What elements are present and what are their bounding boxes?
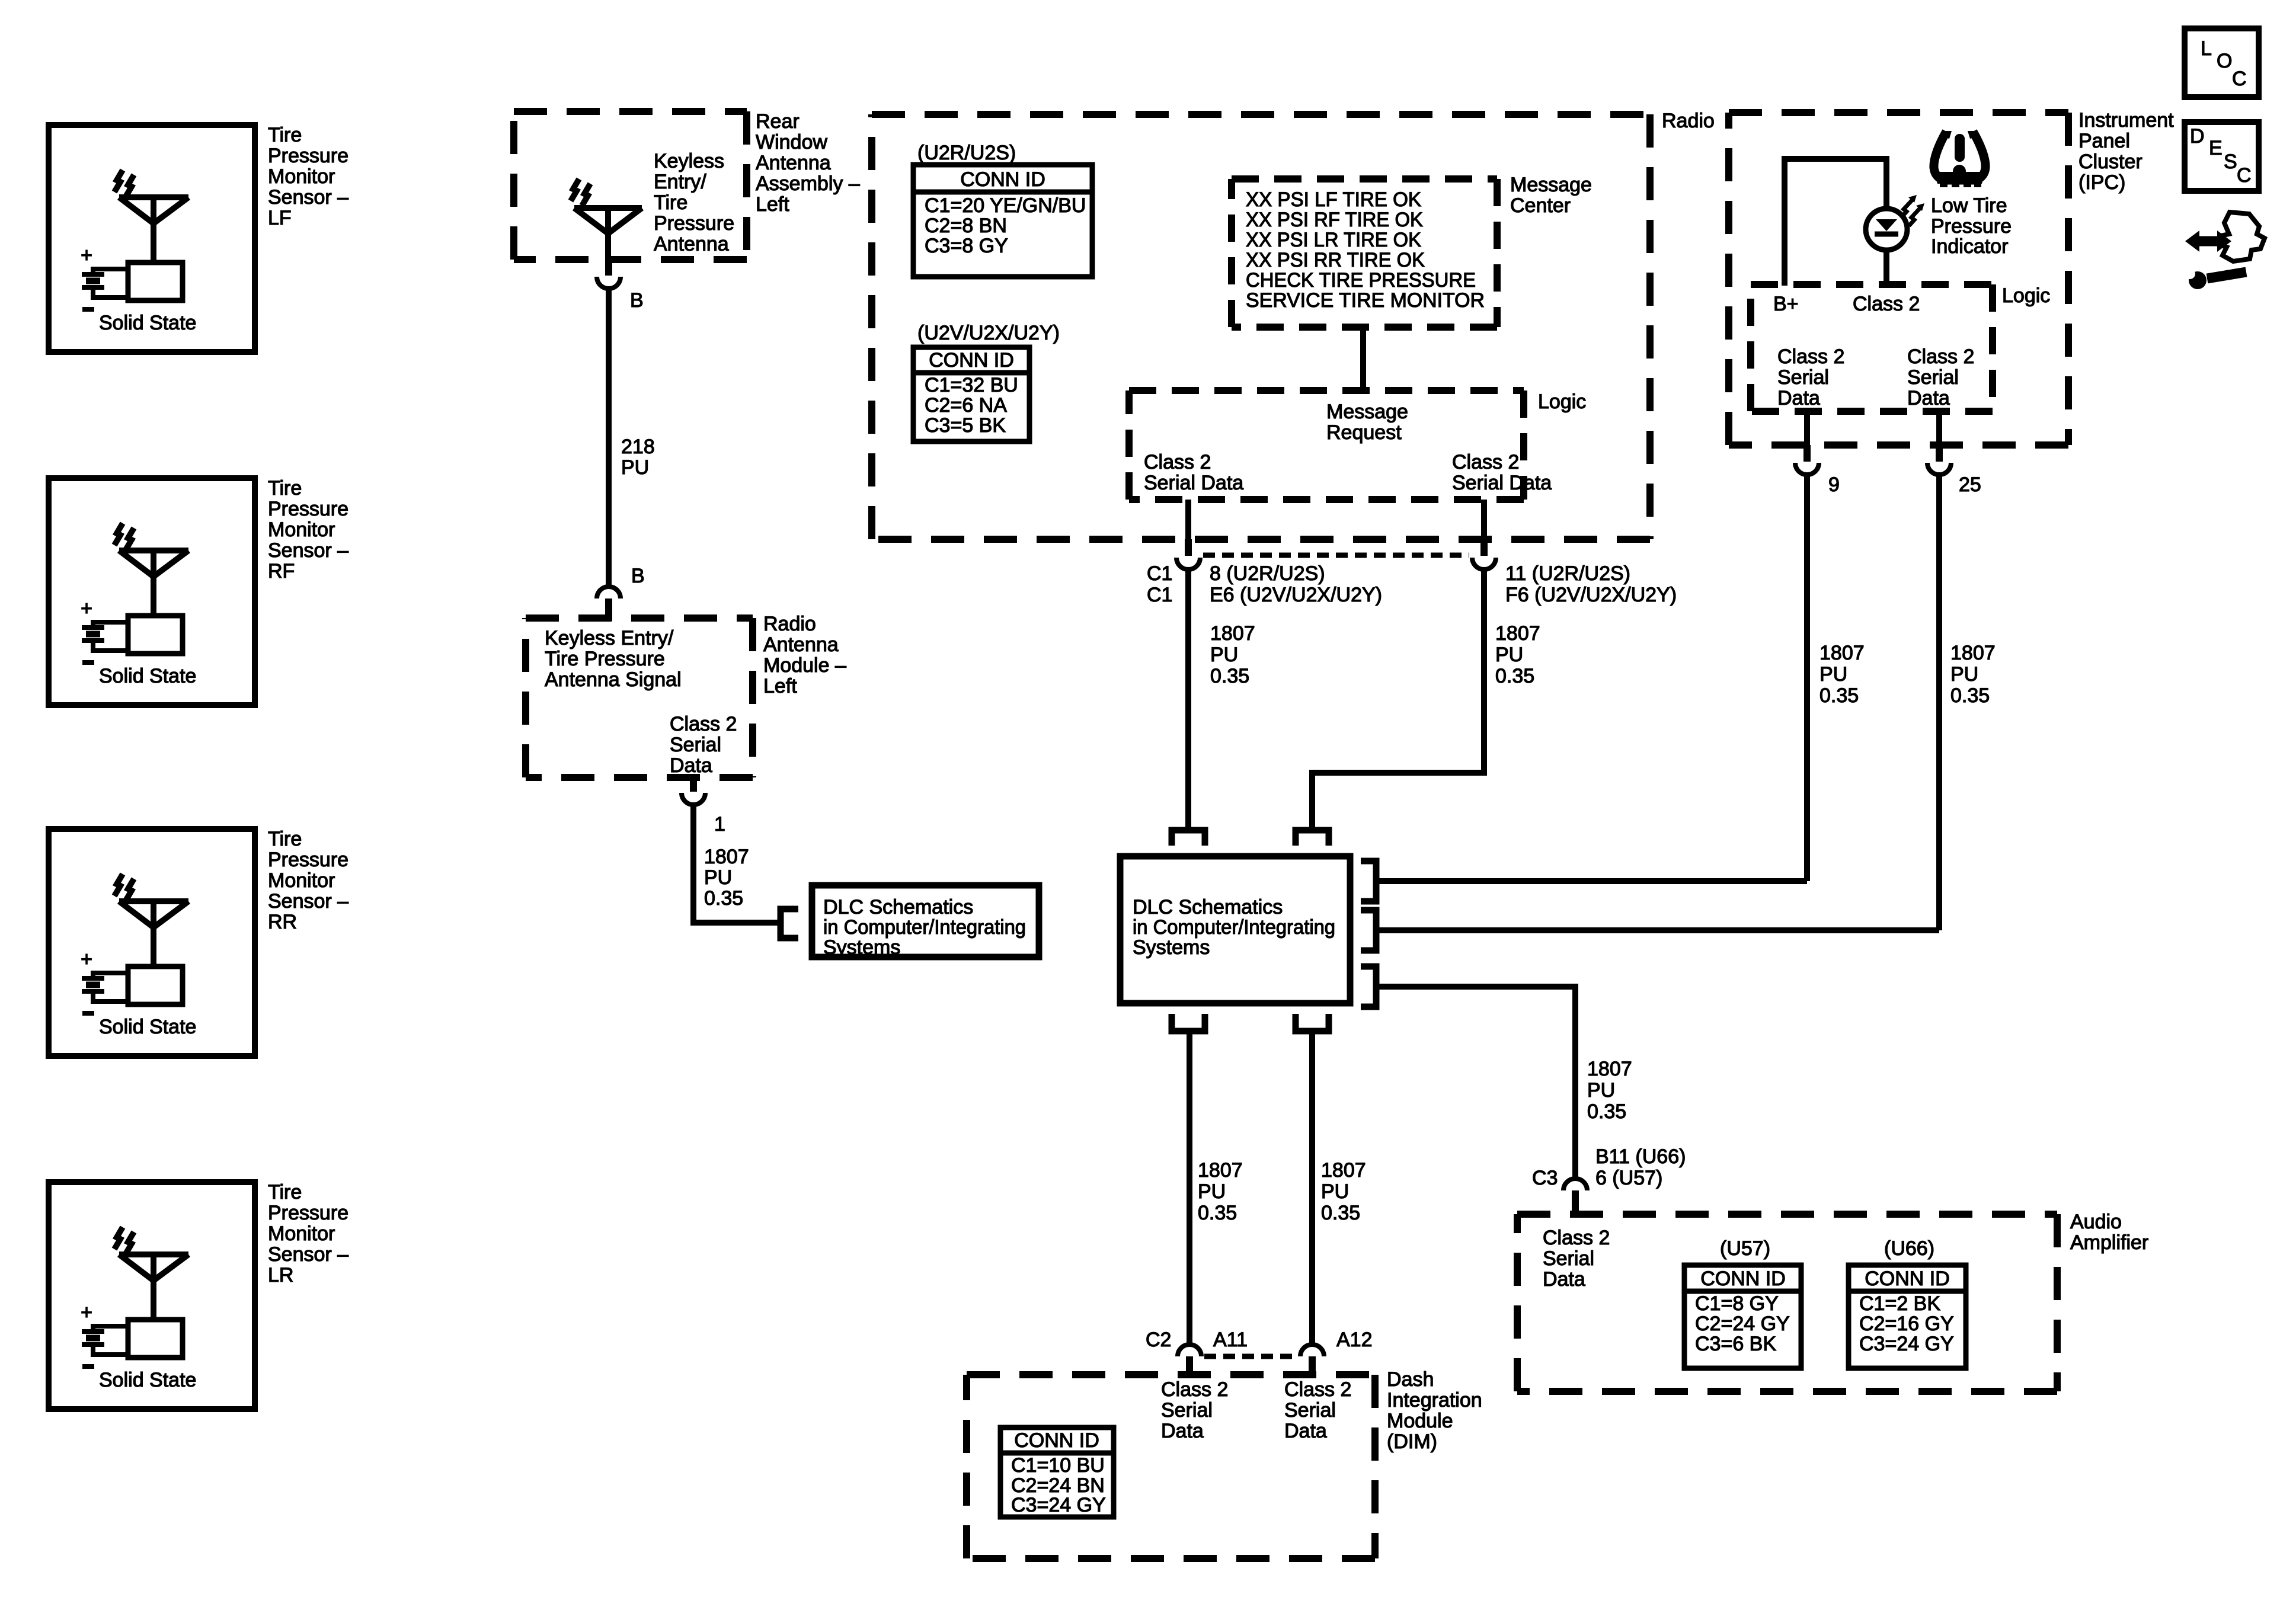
svg-text:1807: 1807	[1950, 642, 1996, 664]
svg-text:Monitor: Monitor	[268, 518, 335, 541]
radio dashed box	[872, 114, 1650, 539]
wire label 218 PU	[621, 436, 655, 479]
svg-text:Class 2: Class 2	[670, 713, 737, 735]
wire LED to logic Class 2 point	[1884, 250, 1889, 286]
svg-text:A12: A12	[1336, 1329, 1373, 1351]
svg-text:Pressure: Pressure	[1931, 215, 2012, 238]
svg-text:XX PSI LF TIRE OK: XX PSI LF TIRE OK	[1246, 188, 1421, 211]
svg-text:C1=2 BK: C1=2 BK	[1859, 1292, 1940, 1315]
svg-text:Pressure: Pressure	[268, 145, 348, 167]
svg-text:Pressure: Pressure	[268, 1202, 348, 1224]
tire pressure monitor sensor RR (box)	[49, 829, 255, 1056]
svg-text:Serial: Serial	[1907, 366, 1959, 389]
wire label 1807 PU 0.35	[704, 846, 749, 910]
label: Keyless Entry/ Tire Pressure Antenna Signal	[545, 627, 682, 691]
svg-text:XX PSI LR TIRE OK: XX PSI LR TIRE OK	[1246, 229, 1421, 251]
svg-text:Monitor: Monitor	[268, 1222, 335, 1245]
svg-text:Systems: Systems	[1133, 936, 1210, 959]
svg-text:Panel: Panel	[2078, 130, 2130, 152]
svg-text:RF: RF	[268, 560, 295, 582]
svg-text:(DIM): (DIM)	[1387, 1430, 1437, 1453]
svg-text:C2=16 GY: C2=16 GY	[1859, 1313, 1954, 1335]
node: Class 2 Serial Data (IPC left)	[1777, 345, 1844, 409]
svg-text:C1=8 GY: C1=8 GY	[1695, 1292, 1779, 1315]
node: Class 2 Serial Data (radio antenna module)	[670, 713, 737, 777]
svg-text:Pressure: Pressure	[654, 212, 734, 235]
dash integration module dashed box	[967, 1375, 1375, 1558]
svg-text:Sensor –: Sensor –	[268, 186, 348, 209]
node: Class 2 Serial Data (IPC right)	[1907, 345, 1974, 409]
svg-text:D: D	[2190, 125, 2205, 148]
svg-text:Keyless: Keyless	[654, 150, 724, 172]
svg-text:C3=24 GY: C3=24 GY	[1011, 1494, 1106, 1516]
svg-text:Request: Request	[1326, 421, 1402, 444]
svg-text:Rear: Rear	[756, 110, 800, 133]
svg-text:Message: Message	[1510, 174, 1592, 196]
wire 1807 PU 0.35 radio right drop	[1312, 569, 1484, 830]
svg-text:C1=20 YE/GN/BU: C1=20 YE/GN/BU	[925, 194, 1086, 217]
svg-text:E: E	[2209, 137, 2223, 159]
DLC schematics box (center)	[1120, 856, 1350, 1003]
pin bracket right 2 of DLC center	[1361, 910, 1376, 950]
IPC logic dashed box	[1751, 284, 1993, 411]
svg-text:Class 2: Class 2	[1853, 293, 1920, 315]
connector A11 at DIM top left	[1178, 1345, 1201, 1378]
label: Dash Integration Module (DIM)	[1387, 1368, 1482, 1453]
svg-text:C3=24 GY: C3=24 GY	[1859, 1333, 1954, 1355]
svg-text:Low Tire: Low Tire	[1931, 194, 2007, 217]
svg-text:(U2R/U2S): (U2R/U2S)	[917, 142, 1016, 164]
svg-text:Class 2: Class 2	[1144, 451, 1211, 473]
svg-text:Window: Window	[756, 131, 827, 153]
svg-text:C3: C3	[1532, 1167, 1558, 1189]
svg-text:Antenna: Antenna	[756, 152, 831, 174]
tire pressure monitor sensor LR (box)	[49, 1182, 255, 1409]
svg-text:0.35: 0.35	[1819, 684, 1859, 707]
wire label 1807 PU 0.35 (DIM left)	[1198, 1159, 1243, 1224]
wire label 1807 PU 0.35 (audio amp drop)	[1587, 1058, 1632, 1123]
label: Tire Pressure Monitor Sensor - RR	[268, 828, 348, 933]
svg-text:Left: Left	[763, 675, 797, 697]
DESC reference box	[2185, 122, 2259, 191]
svg-text:Class 2: Class 2	[1543, 1227, 1610, 1249]
svg-text:Antenna: Antenna	[654, 233, 729, 255]
svg-text:C1=32 BU: C1=32 BU	[925, 374, 1018, 396]
wire label 1807 PU 0.35 (IPC pin 9)	[1819, 642, 1865, 707]
wire pin 9 drop 1807 PU 0.35	[1804, 475, 1810, 881]
svg-text:L: L	[2201, 37, 2212, 60]
svg-text:Serial: Serial	[1161, 1399, 1213, 1422]
label: Message Center	[1510, 174, 1592, 217]
svg-text:Tire: Tire	[268, 828, 302, 850]
connector pin 9 at IPC bottom	[1795, 445, 1819, 475]
label: Tire Pressure Monitor Sensor - LF	[268, 124, 348, 229]
svg-text:DLC Schematics: DLC Schematics	[823, 896, 973, 918]
svg-text:Antenna: Antenna	[763, 633, 839, 656]
svg-text:25: 25	[1959, 473, 1981, 496]
svg-text:C2=6 NA: C2=6 NA	[925, 394, 1007, 417]
instrument panel cluster dashed box	[1729, 113, 2068, 445]
connector C1 pin 8/E6 at radio bottom left	[1176, 539, 1200, 569]
svg-text:Tire: Tire	[268, 477, 302, 500]
svg-text:LF: LF	[268, 207, 292, 229]
svg-text:Serial: Serial	[670, 734, 721, 756]
svg-text:Center: Center	[1510, 194, 1571, 217]
svg-text:Tire: Tire	[654, 191, 687, 214]
svg-text:0.35: 0.35	[704, 887, 743, 910]
wire IPC logic left to pin 9	[1804, 411, 1810, 445]
svg-text:Serial: Serial	[1543, 1247, 1594, 1270]
svg-text:Integration: Integration	[1387, 1389, 1482, 1411]
connector B at rear window antenna assembly (pin B)	[597, 260, 621, 289]
svg-text:C: C	[2237, 164, 2252, 187]
svg-text:1807: 1807	[1587, 1058, 1632, 1080]
svg-text:0.35: 0.35	[1495, 665, 1534, 687]
svg-text:C1: C1	[1147, 584, 1172, 606]
svg-text:Systems: Systems	[823, 936, 900, 959]
label: DLC Schematics in Computer/Integrating Systems (center)	[1133, 896, 1335, 959]
svg-text:Monitor: Monitor	[268, 869, 335, 892]
svg-text:1807: 1807	[704, 846, 749, 868]
connector pin 1 at radio antenna module bottom	[682, 777, 705, 805]
svg-text:Data: Data	[670, 754, 712, 777]
label: Radio Antenna Module - Left	[763, 613, 846, 697]
svg-text:Sensor –: Sensor –	[268, 890, 348, 913]
pin bracket top-right of DLC center	[1296, 830, 1329, 846]
node: Message Request	[1326, 401, 1408, 444]
node: Class 2 Serial Data (DIM left)	[1161, 1378, 1228, 1442]
svg-text:S: S	[2224, 151, 2237, 173]
svg-text:CONN ID: CONN ID	[960, 168, 1045, 191]
svg-text:Cluster: Cluster	[2078, 151, 2142, 173]
interactive hotspot icon (double arrow, outline, wrench)	[2185, 212, 2265, 289]
wire label 1807 PU 0.35 (radio right)	[1495, 622, 1540, 687]
svg-text:Sensor –: Sensor –	[268, 539, 348, 562]
svg-text:B: B	[631, 565, 645, 587]
svg-text:CONN ID: CONN ID	[1700, 1267, 1786, 1290]
svg-text:Class 2: Class 2	[1777, 345, 1844, 368]
node: Class 2 Serial Data (audio amp)	[1543, 1227, 1610, 1291]
svg-text:6 (U57): 6 (U57)	[1595, 1167, 1662, 1189]
svg-text:0.35: 0.35	[1321, 1202, 1360, 1224]
svg-text:0.35: 0.35	[1950, 684, 1990, 707]
svg-text:Class 2: Class 2	[1907, 345, 1974, 368]
svg-text:XX PSI RF TIRE OK: XX PSI RF TIRE OK	[1246, 209, 1423, 231]
label: Rear Window Antenna Assembly - Left	[756, 110, 860, 216]
svg-text:RR: RR	[268, 911, 297, 933]
wire label 1807 PU 0.35 (DIM right)	[1321, 1159, 1366, 1224]
svg-text:F6 (U2V/U2X/U2Y): F6 (U2V/U2X/U2Y)	[1505, 584, 1677, 606]
pin labels 8 (U2R/U2S) / E6 (U2V/U2X/U2Y)	[1210, 562, 1382, 606]
svg-text:Antenna Signal: Antenna Signal	[545, 668, 682, 691]
wire from radio logic right to connector	[1481, 500, 1487, 539]
label: Low Tire Pressure Indicator	[1931, 194, 2012, 258]
label: Keyless Entry/ Tire Pressure Antenna	[654, 150, 734, 255]
svg-text:Serial Data: Serial Data	[1452, 472, 1552, 494]
pin bracket bottom-left of DLC center	[1172, 1014, 1205, 1031]
svg-text:9: 9	[1828, 473, 1840, 496]
svg-text:1807: 1807	[1210, 622, 1255, 645]
pin bracket into DLC schematics box (left)	[781, 909, 798, 938]
svg-text:C2=24 GY: C2=24 GY	[1695, 1313, 1790, 1335]
svg-text:C1=10 BU: C1=10 BU	[1011, 1454, 1105, 1477]
pin labels 11 (U2R/U2S) / F6 (U2V/U2X/U2Y)	[1505, 562, 1677, 606]
svg-text:Data: Data	[1161, 1420, 1204, 1442]
svg-text:Class 2: Class 2	[1161, 1378, 1228, 1401]
wire 1807 PU 0.35 from module to DLC	[693, 805, 781, 923]
wire 1807 PU 0.35 radio left drop	[1185, 569, 1191, 830]
svg-text:C2=8 BN: C2=8 BN	[925, 215, 1007, 237]
svg-text:PU: PU	[1819, 663, 1847, 686]
svg-text:CONN ID: CONN ID	[1014, 1429, 1099, 1452]
radio antenna module dashed box (keyless entry/tire pressure antenna signal)	[526, 618, 753, 777]
label: Tire Pressure Monitor Sensor - LR	[268, 1181, 348, 1286]
wire DLC right pin 1 to IPC pin 9	[1376, 878, 1807, 884]
svg-text:(U2V/U2X/U2Y): (U2V/U2X/U2Y)	[917, 322, 1060, 344]
svg-text:PU: PU	[1587, 1079, 1615, 1102]
svg-text:B: B	[630, 289, 644, 312]
node: Class 2 Serial Data (radio left)	[1144, 451, 1243, 494]
message center display text	[1246, 188, 1485, 312]
svg-text:O: O	[2217, 50, 2232, 72]
label: Tire Pressure Monitor Sensor - RF	[268, 477, 348, 582]
svg-text:0.35: 0.35	[1587, 1100, 1626, 1123]
svg-text:CONN ID: CONN ID	[929, 349, 1014, 372]
wire B+ bridge to low tire pressure indicator	[1785, 159, 1886, 286]
wire pin 25 drop 1807 PU 0.35	[1936, 475, 1942, 930]
wire label 1807 PU 0.35 (radio left)	[1210, 622, 1255, 687]
svg-text:B11 (U66): B11 (U66)	[1595, 1145, 1686, 1168]
svg-text:1807: 1807	[1819, 642, 1865, 664]
svg-text:(U66): (U66)	[1884, 1237, 1934, 1260]
svg-text:PU: PU	[1321, 1180, 1349, 1203]
svg-text:SERVICE TIRE MONITOR: SERVICE TIRE MONITOR	[1246, 289, 1485, 312]
CONN ID table (U57)	[1684, 1265, 1801, 1368]
svg-text:B+: B+	[1773, 293, 1799, 315]
in-line connector dashed link (DIM top)	[1204, 1354, 1297, 1359]
connector C3 at audio amplifier top	[1563, 1179, 1587, 1217]
svg-text:Radio: Radio	[1662, 110, 1715, 132]
radio logic dashed box	[1129, 391, 1524, 500]
wire 218 PU from antenna to radio antenna module	[606, 289, 612, 587]
svg-text:Data: Data	[1907, 387, 1950, 409]
wire label 1807 PU 0.35 (IPC pin 25)	[1950, 642, 1996, 707]
label: Instrument Panel Cluster (IPC)	[2078, 109, 2174, 194]
svg-text:(IPC): (IPC)	[2078, 171, 2125, 194]
svg-text:DLC Schematics: DLC Schematics	[1133, 896, 1283, 918]
connector C1 pin 11/F6 at radio bottom right	[1472, 539, 1496, 569]
pin bracket bottom-right of DLC center	[1296, 1014, 1329, 1031]
svg-text:Class 2: Class 2	[1452, 451, 1519, 473]
node: Class 2 Serial Data (DIM right)	[1284, 1378, 1351, 1442]
svg-text:PU: PU	[1198, 1180, 1226, 1203]
svg-text:CONN ID: CONN ID	[1865, 1267, 1950, 1290]
wire DLC right pin 2 to IPC pin 25	[1376, 927, 1939, 933]
connector pin 25 at IPC bottom	[1927, 445, 1951, 475]
svg-text:Keyless Entry/: Keyless Entry/	[545, 627, 674, 649]
node: Class 2 Serial Data (radio right)	[1452, 451, 1552, 494]
svg-text:Entry/: Entry/	[654, 171, 706, 193]
svg-text:(U57): (U57)	[1720, 1237, 1770, 1260]
svg-text:1807: 1807	[1198, 1159, 1243, 1182]
message center dashed box	[1232, 179, 1497, 327]
svg-text:Data: Data	[1543, 1268, 1585, 1291]
svg-text:Data: Data	[1777, 387, 1820, 409]
wire from radio logic left to connector	[1185, 500, 1191, 539]
svg-text:Left: Left	[756, 193, 789, 216]
connector A12 at DIM top right	[1300, 1345, 1324, 1378]
svg-text:C2: C2	[1146, 1329, 1171, 1351]
svg-text:Tire: Tire	[268, 1181, 302, 1204]
svg-text:Serial Data: Serial Data	[1144, 472, 1243, 494]
connector B at radio antenna module (pin B)	[597, 587, 621, 621]
svg-text:C1: C1	[1147, 562, 1172, 585]
svg-text:Tire: Tire	[268, 124, 302, 146]
pin bracket top-left of DLC center	[1172, 830, 1205, 846]
svg-text:Instrument: Instrument	[2078, 109, 2174, 132]
svg-text:Sensor –: Sensor –	[268, 1243, 348, 1266]
svg-text:CHECK TIRE PRESSURE: CHECK TIRE PRESSURE	[1246, 269, 1476, 292]
svg-text:A11: A11	[1213, 1329, 1248, 1351]
CONN ID table (U2R/U2S)	[913, 165, 1092, 277]
LED light emission arrows	[1901, 195, 1924, 226]
wire DLC right pin 3 to audio amplifier C3	[1376, 987, 1575, 1179]
svg-text:XX PSI RR TIRE OK: XX PSI RR TIRE OK	[1246, 249, 1425, 271]
svg-text:C: C	[2232, 68, 2247, 90]
svg-text:C3=6 BK: C3=6 BK	[1695, 1333, 1776, 1355]
svg-text:0.35: 0.35	[1198, 1202, 1237, 1224]
svg-text:1807: 1807	[1495, 622, 1540, 645]
CONN ID table (U2V/U2X/U2Y)	[913, 347, 1029, 441]
wire DLC bottom-left to DIM A11	[1187, 1033, 1192, 1345]
svg-text:Module: Module	[1387, 1410, 1453, 1432]
svg-text:Module –: Module –	[763, 654, 846, 677]
svg-text:Amplifier: Amplifier	[2070, 1231, 2148, 1254]
CONN ID table (DIM)	[1000, 1427, 1114, 1517]
svg-text:1807: 1807	[1321, 1159, 1366, 1182]
svg-text:0.35: 0.35	[1210, 665, 1249, 687]
audio amplifier dashed box	[1517, 1214, 2057, 1391]
pin bracket right 1 of DLC center	[1361, 861, 1376, 901]
svg-text:Data: Data	[1284, 1420, 1327, 1442]
svg-text:PU: PU	[1210, 644, 1238, 666]
svg-text:11 (U2R/U2S): 11 (U2R/U2S)	[1505, 562, 1630, 585]
low tire pressure warning (TPMS) icon	[1934, 131, 1985, 187]
CONN ID table (U66)	[1849, 1265, 1966, 1368]
svg-text:Serial: Serial	[1777, 366, 1829, 389]
svg-text:Logic: Logic	[1538, 391, 1586, 413]
pin labels C1 C1 (radio bottom left)	[1147, 562, 1172, 606]
low tire pressure indicator LED (lamp)	[1866, 209, 1907, 250]
svg-text:Class 2: Class 2	[1284, 1378, 1351, 1401]
svg-text:Radio: Radio	[763, 613, 816, 635]
svg-text:Logic: Logic	[2002, 284, 2050, 307]
DLC schematics box (left)	[812, 885, 1039, 957]
label: Audio Amplifier	[2070, 1211, 2148, 1254]
svg-text:Audio: Audio	[2070, 1211, 2122, 1233]
svg-text:C3=8 GY: C3=8 GY	[925, 235, 1008, 257]
svg-text:PU: PU	[1950, 663, 1978, 686]
LOC reference box	[2185, 28, 2259, 97]
svg-text:Serial: Serial	[1284, 1399, 1336, 1422]
svg-text:218: 218	[621, 436, 655, 458]
svg-text:Monitor: Monitor	[268, 165, 335, 188]
svg-text:Pressure: Pressure	[268, 498, 348, 520]
in-line connector dashed link (radio bottom)	[1203, 553, 1469, 558]
tire pressure monitor sensor LF (box)	[49, 125, 255, 352]
svg-text:in Computer/Integrating: in Computer/Integrating	[823, 916, 1026, 939]
svg-text:Pressure: Pressure	[268, 849, 348, 871]
svg-text:in Computer/Integrating: in Computer/Integrating	[1133, 916, 1335, 939]
svg-text:C3=5 BK: C3=5 BK	[925, 414, 1006, 437]
svg-text:Message: Message	[1326, 401, 1408, 423]
wire DLC bottom-right to DIM A12	[1309, 1033, 1315, 1345]
svg-text:8 (U2R/U2S): 8 (U2R/U2S)	[1210, 562, 1325, 585]
wire IPC logic right to pin 25	[1936, 411, 1942, 445]
svg-text:E6 (U2V/U2X/U2Y): E6 (U2V/U2X/U2Y)	[1210, 584, 1382, 606]
svg-text:1: 1	[714, 813, 725, 836]
svg-text:Assembly –: Assembly –	[756, 172, 860, 195]
rear window antenna assembly dashed box	[514, 111, 747, 260]
tire pressure monitor sensor RF (box)	[49, 478, 255, 705]
svg-text:PU: PU	[704, 866, 732, 889]
svg-text:LR: LR	[268, 1264, 293, 1286]
svg-text:Dash: Dash	[1387, 1368, 1434, 1391]
label: DLC Schematics in Computer/Integrating Systems (left)	[823, 896, 1026, 959]
pin bracket right 3 of DLC center	[1361, 966, 1376, 1007]
wire message request (message center to logic)	[1360, 327, 1366, 391]
keyless entry / tire pressure antenna symbol	[571, 179, 642, 260]
svg-text:PU: PU	[1495, 644, 1523, 666]
svg-text:PU: PU	[621, 456, 649, 479]
svg-text:Tire Pressure: Tire Pressure	[545, 648, 665, 670]
svg-text:Indicator: Indicator	[1931, 235, 2008, 258]
